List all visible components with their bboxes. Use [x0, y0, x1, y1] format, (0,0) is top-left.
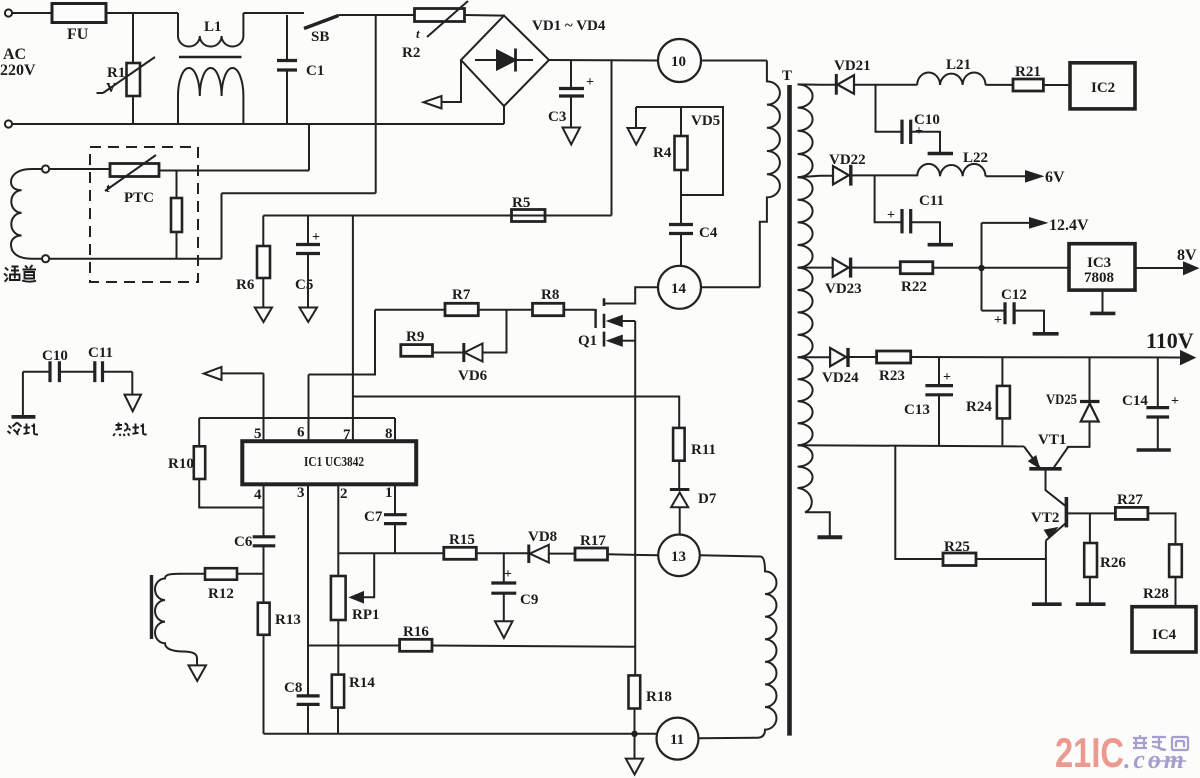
svg-text:SB: SB [311, 29, 329, 45]
resistor R23 [877, 351, 911, 363]
svg-text:21IC: 21IC [1055, 729, 1124, 776]
wire 110V rail [911, 356, 1181, 359]
svg-text:R7: R7 [452, 287, 471, 303]
resistor R24 [1001, 357, 1003, 386]
wire (rectified +) [549, 59, 658, 62]
wire tap 1 [798, 83, 837, 85]
svg-text:R18: R18 [646, 689, 672, 705]
resistor R10 [194, 446, 205, 479]
svg-text:Q1: Q1 [578, 333, 597, 349]
potentiometer RP1 [331, 576, 346, 620]
diode VD22 [833, 166, 849, 185]
wire (Q1 source) [634, 321, 636, 675]
svg-text:C10: C10 [42, 348, 68, 364]
IC4 [1132, 607, 1196, 652]
wire [851, 267, 901, 269]
ground arrow below R18 [634, 734, 636, 759]
resistor R4 [680, 107, 682, 136]
svg-text:13: 13 [671, 549, 686, 565]
watermark 21IC.com [1055, 729, 1188, 776]
svg-text:FU: FU [67, 26, 89, 43]
svg-text:RP1: RP1 [352, 607, 380, 623]
svg-text:L1: L1 [204, 19, 222, 35]
capacitor C10 [876, 85, 903, 132]
inductor L1 (common-mode choke) [177, 13, 179, 36]
resistor R26 [1089, 513, 1091, 543]
svg-text:6V: 6V [1045, 169, 1065, 186]
resistor R6 [262, 216, 264, 247]
transformer T primary upper winding [760, 61, 780, 288]
switch SB [304, 16, 339, 29]
resistor R18 [629, 675, 641, 708]
resistor R15 [444, 547, 477, 559]
svg-text:IC3: IC3 [1087, 255, 1111, 271]
svg-text:AC: AC [3, 46, 26, 63]
inductor L21 [917, 73, 985, 85]
wire pin2 feedback [338, 552, 444, 554]
wire (aux supply to VCC) [353, 397, 679, 428]
svg-text:C6: C6 [234, 534, 253, 550]
snubber network VD5 [636, 107, 723, 195]
svg-text:R8: R8 [541, 287, 559, 303]
svg-text:L21: L21 [946, 57, 971, 73]
svg-text:8: 8 [385, 426, 393, 442]
capacitor C6 [253, 537, 276, 546]
svg-text:R12: R12 [208, 586, 234, 602]
resistor R5 [512, 210, 546, 222]
svg-text:R5: R5 [512, 195, 530, 211]
diode VD25 [1089, 357, 1091, 401]
svg-text:VD5: VD5 [691, 113, 720, 129]
svg-text:R23: R23 [879, 368, 905, 384]
resistor R22 [900, 262, 933, 274]
svg-text:R10: R10 [168, 456, 194, 472]
svg-text:VD24: VD24 [822, 370, 859, 386]
label 消磁 [4, 265, 36, 282]
svg-text:T: T [782, 68, 792, 84]
transformer secondary winding [798, 84, 813, 177]
svg-text:R14: R14 [349, 675, 375, 691]
svg-text:220V: 220V [0, 62, 36, 79]
diode VD21 [835, 74, 838, 95]
svg-text:R4: R4 [653, 145, 672, 161]
inductor L22 [917, 164, 985, 176]
svg-text:R1: R1 [107, 65, 125, 81]
ground bar (IC3) [1102, 290, 1104, 313]
svg-text:C13: C13 [904, 402, 930, 418]
svg-text:R26: R26 [1100, 555, 1126, 571]
svg-text:C11: C11 [88, 345, 113, 361]
svg-text:110V: 110V [1146, 328, 1194, 353]
wire [1043, 84, 1070, 86]
thermistor R2 [415, 9, 465, 22]
svg-text:IC2: IC2 [1091, 80, 1115, 96]
wire [159, 170, 309, 172]
ground bar (C10) [928, 152, 953, 156]
diode VD6 [462, 343, 465, 362]
wire and arrow 6V [986, 175, 1027, 177]
varistor R1 [127, 63, 141, 96]
wire and arrow 12.4V [982, 222, 1031, 224]
resistor R7 [375, 309, 445, 311]
resistor R8 [533, 303, 564, 315]
svg-text:5: 5 [254, 426, 262, 442]
svg-text:VD8: VD8 [528, 529, 557, 545]
svg-text:4: 4 [254, 487, 262, 503]
ground arrow 热地 [131, 372, 133, 395]
svg-text:VD25: VD25 [1046, 392, 1077, 408]
wire [132, 96, 134, 124]
wire [433, 352, 464, 354]
svg-text:14: 14 [671, 281, 687, 297]
svg-text:VT1: VT1 [1038, 432, 1066, 448]
svg-text:7: 7 [343, 427, 351, 443]
svg-text:R13: R13 [275, 612, 301, 628]
wire tap 2 [798, 176, 833, 177]
svg-text:C8: C8 [284, 680, 302, 696]
svg-text:R25: R25 [944, 539, 970, 555]
svg-text:7808: 7808 [1084, 270, 1114, 286]
arrow to pin5 [222, 372, 264, 374]
svg-text:8V: 8V [1177, 247, 1197, 264]
svg-text:PTC: PTC [124, 190, 154, 206]
ground arrow (snubber) [635, 107, 637, 128]
capacitor C8 [297, 696, 320, 705]
svg-text:.com: .com [1124, 745, 1184, 774]
ground arrow below R6 [255, 308, 272, 323]
transistor VT2 [1065, 497, 1069, 527]
resistor R13 [258, 603, 270, 635]
svg-text:VD23: VD23 [825, 281, 862, 297]
svg-text:R9: R9 [406, 329, 424, 345]
resistor R21 [1013, 79, 1043, 91]
wire [222, 192, 376, 194]
PTC resistor [110, 164, 159, 177]
resistor (PTC box internal) [176, 171, 178, 199]
wire pin6 to gate drive [309, 310, 376, 375]
svg-text:C1: C1 [306, 63, 324, 79]
wire [854, 84, 917, 86]
svg-text:C3: C3 [548, 109, 566, 125]
svg-text:t: t [416, 26, 420, 41]
wire (VCC rail) [263, 215, 611, 217]
ground bar (C12) [1033, 332, 1059, 336]
svg-text:R17: R17 [580, 533, 606, 549]
svg-text:VD21: VD21 [834, 58, 871, 74]
wire [503, 106, 505, 124]
resistor R12 [180, 573, 205, 575]
capacitor C5 [307, 216, 309, 245]
svg-text:2: 2 [340, 486, 348, 502]
ground arrow (hot) below winding [189, 665, 207, 681]
wire [106, 12, 178, 14]
wire tap 5 (emitter rail) [798, 445, 1024, 446]
svg-text:D7: D7 [698, 491, 717, 507]
capacitor C14 [1157, 358, 1159, 408]
svg-text:R22: R22 [901, 279, 927, 295]
resistor R17 [575, 548, 608, 560]
svg-text:VD6: VD6 [458, 368, 488, 384]
svg-text:IC4: IC4 [1152, 627, 1177, 643]
capacitor C1 [286, 15, 288, 124]
wire (live drop to degauss) [375, 15, 377, 193]
wire tap 4 [798, 356, 831, 358]
IC2 [1070, 63, 1135, 109]
svg-text:+: + [943, 370, 951, 385]
ground arrow below C5 [300, 308, 318, 323]
svg-text:C14: C14 [1122, 393, 1148, 409]
capacitor C12 [982, 310, 1006, 312]
wire [465, 14, 505, 17]
wire rail pin8 to R10 [199, 417, 395, 419]
svg-text:+: + [586, 75, 594, 90]
op-amp/controller IC1 UC3842 [242, 441, 416, 484]
ground bar 冷地 [22, 372, 24, 417]
wire pin3 to R16 [308, 645, 400, 647]
fuse FU [52, 4, 106, 23]
feedback winding [150, 575, 153, 639]
svg-text:VT2: VT2 [1031, 510, 1059, 526]
svg-text:+: + [312, 230, 320, 245]
wire [339, 14, 415, 16]
resistor R27 [1090, 512, 1116, 514]
svg-text:+: + [887, 208, 895, 223]
wire [851, 174, 917, 176]
svg-text:C9: C9 [520, 592, 538, 608]
transformer T primary lower winding [699, 555, 777, 738]
node 14 [658, 266, 701, 309]
MOSFET Q1 [564, 309, 596, 311]
svg-text:+: + [504, 567, 512, 582]
svg-text:R21: R21 [1015, 64, 1041, 80]
svg-text:IC1 UC3842: IC1 UC3842 [304, 455, 364, 470]
ground bar (C14) [1137, 448, 1171, 452]
svg-text:6: 6 [297, 425, 305, 441]
IC3 7808 [1069, 244, 1135, 290]
svg-text:10: 10 [671, 54, 686, 70]
diode D7 [670, 488, 690, 491]
svg-text:VD1 ~ VD4: VD1 ~ VD4 [532, 18, 606, 34]
ground bar (R26) [1076, 602, 1106, 606]
capacitor C7 [384, 515, 407, 524]
svg-text:VD22: VD22 [829, 152, 866, 168]
wire [12, 12, 52, 14]
svg-text:R28: R28 [1143, 586, 1169, 602]
capacitor C9 [503, 553, 505, 582]
diode VD23 [833, 258, 849, 276]
capacitor C11 (line filter) [59, 371, 94, 373]
svg-text:t: t [106, 180, 110, 195]
svg-text:V: V [106, 81, 116, 96]
diode VD24 [830, 348, 846, 366]
resistor R11 [673, 428, 685, 461]
svg-text:11: 11 [670, 732, 684, 748]
ground bar (C11) [928, 243, 953, 247]
ground arrow below C3 [563, 128, 581, 145]
capacitor C10 (line filter) [23, 371, 50, 373]
wire R7/R8 junction down [483, 310, 507, 353]
capacitor C13 [938, 357, 940, 385]
wire [221, 193, 223, 258]
wire [243, 12, 304, 14]
node 13 [658, 535, 700, 577]
svg-text:1: 1 [385, 485, 393, 501]
wire [848, 356, 877, 358]
resistor R25 [895, 446, 943, 560]
degaussing coil 消磁 [42, 165, 49, 172]
ground bar (secondary return) [818, 535, 843, 539]
wire [933, 267, 1069, 269]
wire [308, 124, 310, 171]
wire (neutral) [12, 123, 504, 125]
wire tap 3 [798, 267, 833, 269]
transistor VT1 [1029, 467, 1061, 471]
svg-text:C5: C5 [295, 277, 313, 293]
arrow (hot line marker) at bridge left [442, 60, 462, 102]
svg-text:C4: C4 [699, 225, 718, 241]
svg-text:R16: R16 [403, 624, 429, 640]
junction dot [631, 731, 637, 737]
resistor R16 [400, 639, 432, 651]
svg-text:+: + [994, 313, 1002, 328]
svg-text:+: + [1171, 394, 1179, 409]
bridge rectifier VD1~VD4 [461, 16, 549, 106]
wire [701, 286, 760, 288]
capacitor C11 [875, 175, 902, 222]
resistor R9 [401, 345, 433, 357]
ground rail (hot ground) [264, 733, 657, 735]
wire [49, 258, 221, 260]
wire [701, 60, 767, 62]
svg-text:R6: R6 [236, 277, 255, 293]
wire [986, 84, 1014, 86]
capacitor C3 [570, 60, 572, 88]
svg-text:C12: C12 [1001, 287, 1027, 303]
svg-text:C11: C11 [919, 193, 944, 209]
svg-text:L22: L22 [963, 150, 988, 166]
svg-text:C7: C7 [364, 509, 383, 525]
diode VD8 [527, 545, 530, 564]
svg-text:R15: R15 [449, 532, 475, 548]
ground arrow below C9 [495, 621, 513, 638]
wire secondary bottom to ground [798, 488, 830, 536]
node 10 [658, 39, 701, 82]
node 11 [657, 718, 699, 760]
junction dot [978, 265, 984, 271]
svg-text:3: 3 [297, 485, 305, 501]
resistor R14 [332, 675, 344, 708]
ground bar (VT2) [1032, 602, 1062, 606]
capacitor C4 [669, 225, 693, 234]
wire [49, 168, 110, 170]
wire [611, 60, 613, 215]
wire [132, 13, 134, 63]
svg-text:R24: R24 [966, 399, 992, 415]
PTC dashed box [90, 147, 198, 282]
AC input terminal top [5, 9, 12, 16]
svg-text:12.4V: 12.4V [1049, 217, 1089, 234]
transformer core [787, 85, 792, 736]
svg-text:R11: R11 [691, 442, 716, 458]
svg-text:R27: R27 [1117, 492, 1143, 508]
svg-text:R2: R2 [402, 45, 420, 61]
AC input terminal bottom [5, 120, 12, 127]
resistor R28 [1169, 544, 1182, 577]
wire and arrow 8V [1135, 267, 1184, 269]
